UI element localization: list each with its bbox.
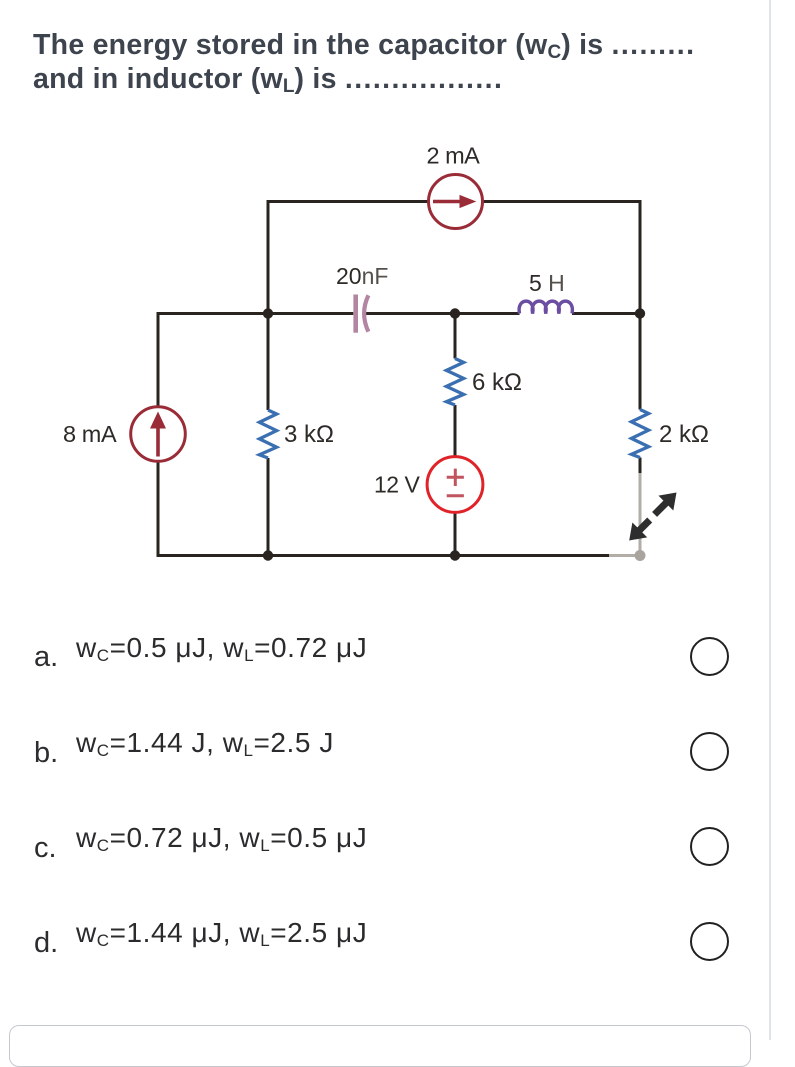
option a radio	[690, 637, 729, 676]
wire bottom	[157, 554, 610, 557]
svg-text:6 kΩ: 6 kΩ	[472, 369, 522, 396]
option c radio	[690, 827, 729, 866]
capacitor C1 20nF	[353, 295, 368, 333]
wire branch2 vertical upper	[267, 314, 270, 411]
current source I2 8 mA	[131, 407, 186, 462]
option b letter	[34, 739, 58, 768]
option b radio	[690, 732, 729, 771]
node junction dot D	[263, 550, 273, 560]
svg-text:3 kΩ: 3 kΩ	[284, 421, 334, 448]
wire right vertical upper	[639, 314, 642, 410]
wire grey right vertical (selected)	[639, 473, 642, 556]
option d letter	[34, 929, 58, 958]
bottom card outline	[9, 1025, 751, 1067]
inductor L1 5 H	[519, 301, 572, 313]
svg-text:2 kΩ: 2 kΩ	[659, 421, 709, 448]
option c letter	[34, 834, 57, 863]
node junction dot A	[263, 308, 273, 318]
current source I1 2 mA	[429, 175, 483, 229]
wire left vertical	[157, 312, 160, 557]
node grey corner dot	[635, 550, 646, 561]
wire middle right segment	[572, 312, 640, 315]
option c text	[76, 824, 367, 856]
node junction dot C	[635, 308, 645, 318]
resistor R3 2 kOhm	[631, 410, 648, 458]
option d text	[76, 919, 367, 951]
svg-text:2 mA: 2 mA	[427, 142, 481, 168]
option a letter	[34, 643, 58, 672]
wire branch3 vertical upper	[454, 314, 457, 359]
option d radio	[690, 922, 729, 961]
wire middle left segment	[157, 312, 354, 315]
wire branch2 vertical lower	[267, 458, 270, 557]
wire top	[268, 202, 640, 316]
option b text	[76, 729, 334, 761]
wire right vertical below resistor	[639, 458, 642, 475]
node junction dot E	[450, 550, 460, 560]
wire branch3 vertical lower	[454, 405, 457, 557]
node junction dot B	[450, 308, 460, 318]
question title line 2	[33, 65, 503, 98]
svg-text:5 H: 5 H	[529, 270, 565, 296]
wire middle center segment	[365, 312, 520, 315]
voltage source V1 12 V	[427, 457, 483, 513]
option a text	[76, 634, 367, 666]
resize cursor arrows	[629, 493, 676, 541]
resistor R1 3 kOhm	[259, 410, 276, 458]
wire grey bottom segment (selected)	[609, 554, 640, 557]
svg-text:12 V: 12 V	[374, 472, 420, 498]
svg-text:8 mA: 8 mA	[63, 421, 117, 447]
right page divider line	[769, 0, 771, 1040]
svg-text:20nF: 20nF	[336, 263, 388, 289]
resistor R2 6 kOhm	[446, 359, 463, 406]
question title line 1	[33, 31, 695, 64]
